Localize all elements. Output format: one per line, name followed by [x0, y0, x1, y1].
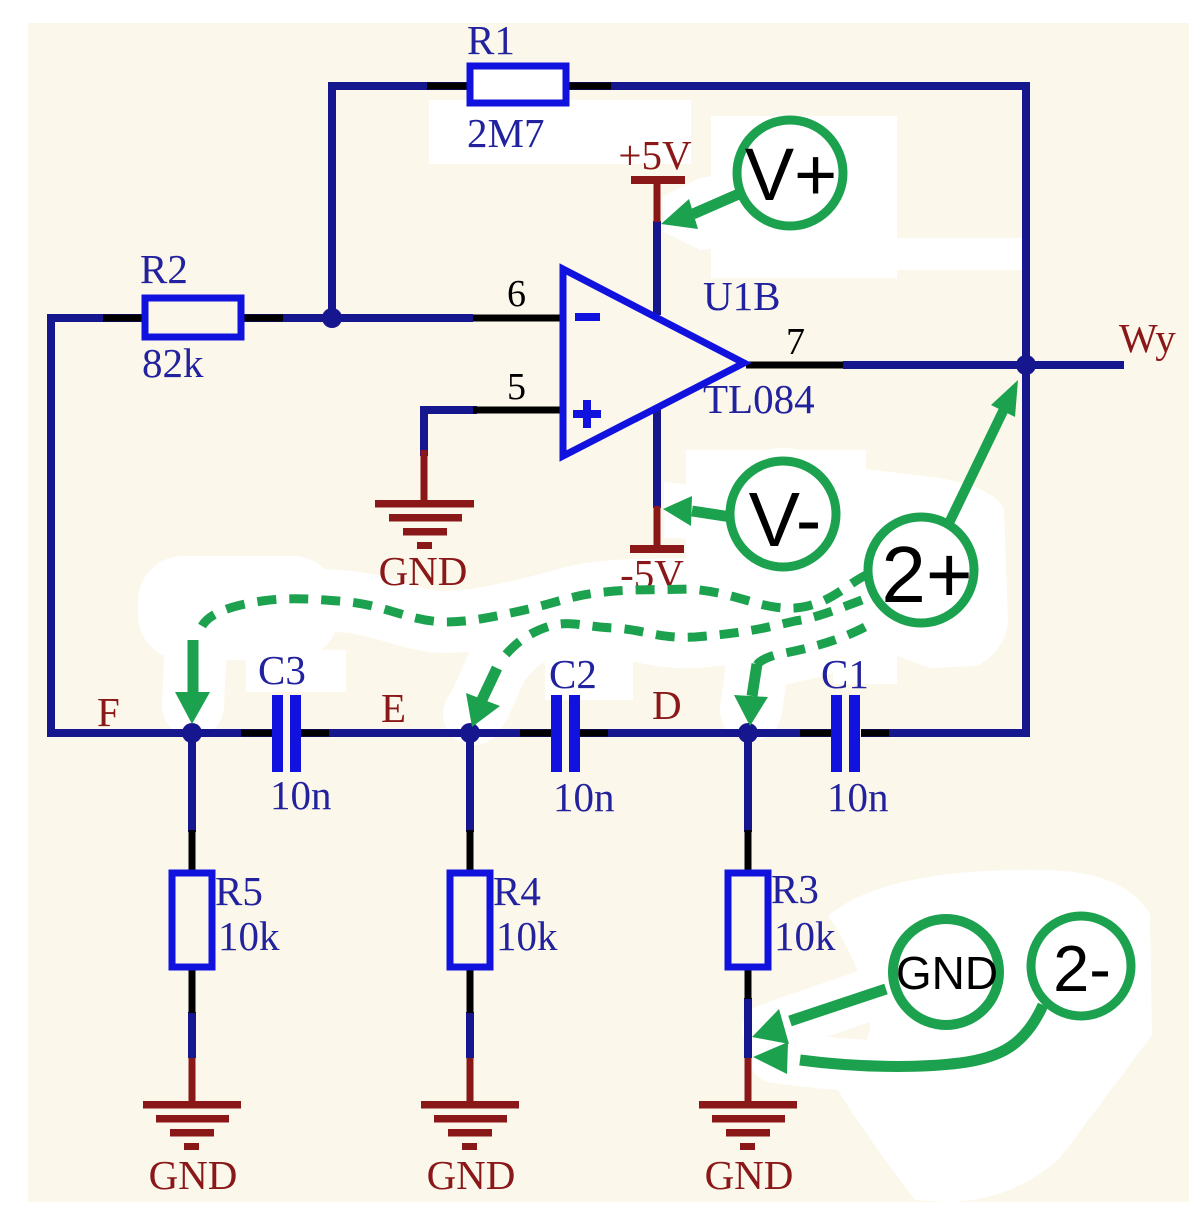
resistor R1: [470, 66, 566, 103]
capacitor C3 plates: [272, 695, 283, 772]
pin lead R5: [189, 830, 196, 874]
capacitor C1 plates: [831, 695, 842, 772]
pin lead R4: [467, 830, 474, 874]
svg-text:R5: R5: [215, 868, 263, 914]
pin lead R1 left: [427, 83, 470, 90]
svg-text:TL084: TL084: [703, 376, 815, 422]
svg-text:10k: 10k: [774, 913, 836, 959]
svg-text:Wy: Wy: [1119, 315, 1176, 361]
svg-text:10k: 10k: [496, 913, 558, 959]
svg-text:10n: 10n: [553, 774, 615, 820]
capacitor C2 plates: [551, 695, 562, 772]
annotation circle GND: [893, 919, 999, 1025]
op-amp U1B triangle: [563, 269, 744, 456]
svg-text:GND: GND: [427, 1152, 516, 1198]
ground symbol under R4: [421, 1058, 519, 1198]
node junction at output Wy: [1016, 355, 1036, 375]
pin lead R3: [745, 830, 752, 874]
white halo behind V+ annotation: [711, 116, 897, 278]
svg-text:2+: 2+: [881, 530, 972, 619]
svg-text:V+: V+: [745, 133, 838, 216]
green dashed strand to node D: [757, 627, 865, 665]
svg-text:R3: R3: [771, 866, 819, 912]
svg-text:+5V: +5V: [618, 132, 692, 178]
ground symbol at pin 5: [375, 450, 474, 594]
white halo behind GND and 2- annotations: [828, 870, 1152, 1202]
node F junction: [182, 723, 202, 743]
green arrow V- to supply stem: [692, 511, 731, 517]
green dashed strand to node E: [498, 600, 862, 664]
svg-text:C2: C2: [549, 651, 597, 697]
pin lead op-amp pin 5: [473, 407, 564, 414]
green arrow V+ to supply stem: [693, 193, 741, 214]
svg-text:GND: GND: [149, 1152, 238, 1198]
svg-text:2M7: 2M7: [467, 110, 544, 156]
power -5V stem: [654, 506, 661, 547]
svg-text:82k: 82k: [142, 340, 204, 386]
pin lead C1: [800, 730, 831, 737]
pin lead C2: [520, 730, 551, 737]
annotation circle V-: [730, 461, 836, 567]
svg-text:10n: 10n: [270, 772, 332, 818]
white halo behind 2M7 label: [429, 100, 691, 164]
green arrow 2+ to output node: [950, 407, 1005, 521]
svg-text:F: F: [97, 689, 120, 735]
power +5V stem: [654, 184, 661, 222]
svg-text:2-: 2-: [1053, 932, 1111, 1005]
svg-text:GND: GND: [379, 548, 468, 594]
op-amp inverting input minus: [575, 313, 600, 321]
pin lead C3: [241, 730, 272, 737]
pin lead op-amp pin 7 output: [746, 362, 843, 369]
wire: negative supply stem: [653, 408, 661, 508]
pin lead R2 right: [242, 315, 283, 322]
green arrow into node F: [188, 640, 199, 694]
wire: bottom net F-E-D segments: [47, 729, 272, 737]
node D junction: [738, 723, 758, 743]
green arrow GND to R3 ground wire: [790, 989, 886, 1021]
wire: node D branch down: [744, 733, 752, 832]
svg-text:C1: C1: [821, 651, 869, 697]
annotation circle 2-: [1031, 916, 1131, 1016]
svg-text:7: 7: [786, 321, 805, 363]
resistor R4: [450, 873, 490, 967]
svg-text:E: E: [381, 685, 406, 731]
power +5V bar: [631, 176, 685, 184]
power -5V bar: [630, 545, 684, 553]
svg-text:5: 5: [507, 366, 526, 408]
white halo behind V- and 2+ annotations: [686, 450, 866, 642]
white halo along dashed strands: [138, 556, 338, 660]
annotation circle V+: [737, 120, 843, 226]
ground symbol under R5: [143, 1058, 241, 1198]
svg-text:D: D: [652, 682, 682, 728]
op-amp non-inverting input plus: [573, 410, 601, 418]
node junction at R2 output: [322, 308, 342, 328]
svg-text:U1B: U1B: [703, 273, 780, 319]
wire: pin5 to ground: [424, 410, 473, 452]
pin lead R1 right: [566, 83, 611, 90]
svg-text:10k: 10k: [218, 913, 280, 959]
resistor R2: [145, 298, 241, 337]
green dashed strand to node F: [202, 574, 868, 626]
svg-text:GND: GND: [705, 1152, 794, 1198]
green arrow into node E: [480, 668, 497, 704]
svg-text:V-: V-: [749, 477, 822, 563]
pin lead R2 left: [103, 315, 147, 322]
node E junction: [460, 723, 480, 743]
svg-text:R2: R2: [140, 246, 188, 292]
resistor R5: [172, 873, 212, 967]
annotation circle 2+: [868, 517, 974, 623]
white boxes behind capacitor labels: [246, 650, 346, 692]
wire: R2 to inverting input: [51, 314, 473, 322]
pin lead op-amp pin 6: [473, 315, 564, 322]
svg-text:C3: C3: [258, 647, 306, 693]
resistor R3: [728, 873, 768, 967]
svg-text:R1: R1: [467, 17, 515, 63]
wire: positive supply stem: [653, 221, 661, 315]
svg-text:6: 6: [507, 273, 526, 315]
green curved arrow 2- to R3 ground wire: [800, 1005, 1043, 1066]
svg-text:GND: GND: [896, 947, 998, 999]
svg-text:10n: 10n: [827, 774, 889, 820]
wire: feedback loop top and right side: [332, 86, 1026, 733]
wire: left side vertical: [47, 318, 55, 733]
ground symbol under R3: [699, 1058, 797, 1198]
svg-text:R4: R4: [493, 868, 541, 914]
green arrow into node D: [752, 664, 757, 696]
wire: node F branch down: [188, 733, 196, 832]
wire: node E branch down: [466, 733, 474, 832]
wire: output to Wy: [843, 361, 1124, 369]
